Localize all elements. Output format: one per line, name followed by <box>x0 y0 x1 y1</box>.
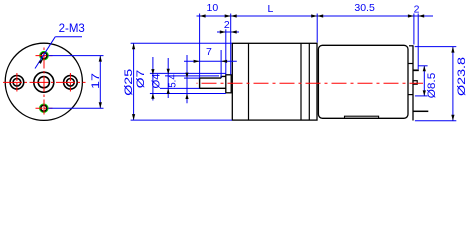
ext line motor bottom right <box>415 120 456 122</box>
dim D25 dimension line <box>133 43 135 120</box>
left mounting hole outer <box>10 76 24 90</box>
dim 5.4 bottom arrow <box>185 94 188 100</box>
dim 30.5 left arrow <box>317 14 323 17</box>
dim 2 rear right arrow <box>418 14 424 17</box>
dim 5.4 top arrow <box>185 73 188 79</box>
top M3 hole green ring <box>40 51 48 59</box>
right mounting hole inner <box>67 79 75 87</box>
svg-text:Ø23.8: Ø23.8 <box>456 57 468 96</box>
vertical centerline front view <box>43 47 45 115</box>
gearbox body <box>232 43 317 120</box>
dim 17 bottom arrow <box>99 102 102 108</box>
gearbox outer circle <box>5 43 82 120</box>
right hole cross vertical <box>69 73 71 92</box>
dim 10 left arrow <box>200 14 206 17</box>
bottom M3 hole black ring <box>41 105 47 111</box>
gearbox front cover line <box>248 43 250 120</box>
leader shoulder under 2-M3 <box>55 36 82 38</box>
ext line boss right face <box>230 14 232 75</box>
ext line hub bottom <box>415 95 428 97</box>
ext line rear cap <box>413 14 415 45</box>
center shaft hole inner circle <box>38 77 49 88</box>
dim 17 dimension line <box>99 56 101 109</box>
leader line 2-M3 <box>35 37 55 69</box>
ext line motor front <box>316 14 318 43</box>
gearbox rear line 1 <box>300 43 302 120</box>
rear hub top line <box>408 63 413 65</box>
dim 2 front dimension line <box>217 31 239 33</box>
left mounting hole inner <box>13 79 21 87</box>
dim D23.8 bottom arrow <box>451 115 454 121</box>
dim D8.5 top arrow <box>423 66 426 72</box>
right mounting hole outer <box>64 76 78 90</box>
dim D23.8 top arrow <box>451 47 454 53</box>
rear hub bottom line <box>408 94 413 96</box>
dim 30.5 right arrow <box>408 14 414 17</box>
dim D7 bottom arrow <box>151 93 154 99</box>
motor rear cap edge <box>412 45 414 120</box>
dim D25 top arrow <box>132 43 135 49</box>
dim L left arrow <box>231 14 237 17</box>
rear terminal top <box>413 69 419 71</box>
dim D4 top arrow <box>167 69 170 75</box>
svg-text:5.4: 5.4 <box>168 74 179 88</box>
svg-text:10: 10 <box>207 2 219 14</box>
left hole cross vertical <box>16 73 18 92</box>
svg-text:30.5: 30.5 <box>354 2 375 14</box>
top main dimension line <box>197 15 434 17</box>
top M3 hole black ring <box>41 53 47 59</box>
dim D7 dimension line <box>152 57 154 101</box>
dim 17 top extension line <box>49 55 104 57</box>
dim 7 dimension line <box>184 60 237 62</box>
ext line flat end <box>220 50 222 78</box>
dim 2 front right arrow <box>231 30 237 33</box>
dim D4 bottom arrow <box>167 88 170 94</box>
ext line hub top <box>418 65 427 67</box>
ext line gearbox bottom <box>131 119 232 121</box>
dim L right arrow <box>311 14 317 17</box>
svg-text:17: 17 <box>90 73 102 89</box>
dim D25 bottom arrow <box>132 114 135 120</box>
center shaft hole outer circle <box>34 72 54 92</box>
bottom M3 cross horizontal <box>36 107 53 109</box>
dim 2 front left arrow <box>220 30 226 33</box>
rear bottom bracket horizontal <box>413 110 428 112</box>
svg-text:2-M3: 2-M3 <box>59 23 85 35</box>
rear cap top step <box>409 45 413 47</box>
dim 17 top arrow <box>99 56 102 62</box>
motor bottom strip <box>345 116 379 118</box>
ext line shaft tip <box>199 14 201 78</box>
dim 17 bottom extension line <box>49 107 104 109</box>
svg-text:L: L <box>267 3 273 15</box>
dim 10 right arrow <box>225 14 231 17</box>
ext line motor top right <box>415 46 457 48</box>
svg-text:7: 7 <box>206 46 212 58</box>
dim D7 top arrow <box>151 69 154 75</box>
shaft outline with flat <box>200 76 226 88</box>
dim 7 left arrow <box>194 60 200 63</box>
ext line gearbox top <box>131 42 232 44</box>
svg-text:2: 2 <box>414 4 420 16</box>
svg-text:Ø8.5: Ø8.5 <box>426 73 438 99</box>
ext line boss top <box>150 72 226 74</box>
dim 5.4 dimension line <box>186 55 188 103</box>
dim D8.5 bottom arrow <box>423 90 426 96</box>
ext line flat top <box>184 77 200 79</box>
ext line rear terminal <box>417 14 419 70</box>
svg-text:2: 2 <box>224 19 230 31</box>
dim D23.8 dimension line <box>452 47 454 121</box>
dim 7 right arrow <box>221 60 227 63</box>
leader arrowhead <box>39 58 44 64</box>
top M3 cross horizontal <box>36 55 53 57</box>
ext line shaft top <box>165 75 219 77</box>
bottom M3 hole green ring <box>40 104 48 112</box>
svg-text:Ø7: Ø7 <box>135 70 147 89</box>
dim D8.5 dimension line <box>423 66 425 96</box>
ext line shaft bottom <box>160 87 200 89</box>
horizontal centerline front view <box>3 81 86 83</box>
ext line boss left <box>225 29 227 74</box>
motor body <box>318 45 408 118</box>
bearing boss <box>226 75 231 93</box>
gearbox rear line 2 <box>308 43 310 120</box>
side view centerline <box>197 82 424 84</box>
ext line boss bottom <box>150 93 226 95</box>
svg-text:Ø4: Ø4 <box>151 74 163 89</box>
svg-text:Ø25: Ø25 <box>123 69 135 96</box>
dim D4 dimension line <box>167 58 169 98</box>
rear shaft stub <box>413 81 417 85</box>
